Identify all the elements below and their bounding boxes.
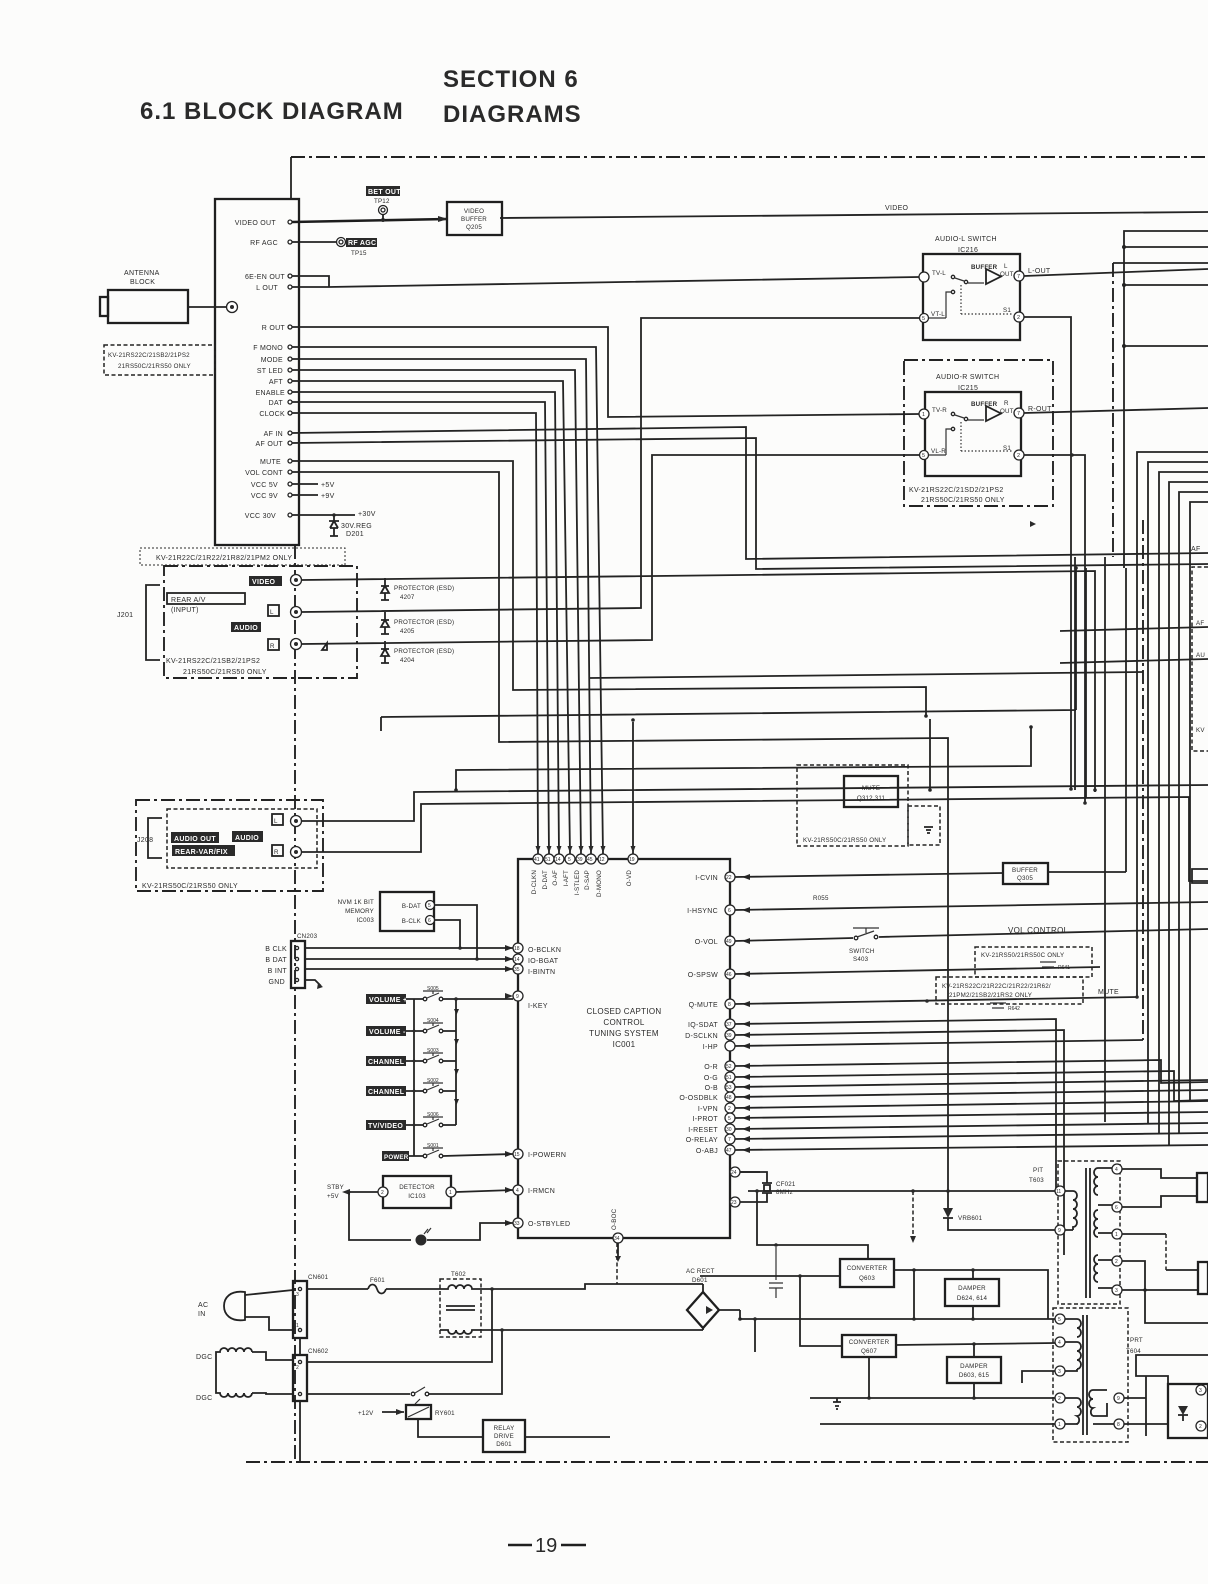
svg-text:IC003: IC003: [356, 917, 374, 924]
wire O-RELAY: [735, 1133, 1208, 1139]
switch contacts IC215: [951, 412, 954, 415]
svg-text:RF AGC: RF AGC: [250, 240, 278, 247]
connector CN602: [293, 1355, 307, 1401]
svg-text:TV-L: TV-L: [932, 270, 946, 277]
svg-text:KV-21RS22C/21SD2/21PS2: KV-21RS22C/21SD2/21PS2: [909, 487, 1004, 494]
key button CHANNEL+: [366, 1056, 406, 1066]
svg-text:KV-21RS22C/21R22C/21R22/21R62/: KV-21RS22C/21R22C/21R22/21R62/: [942, 983, 1051, 990]
IC001 left pin 33 O-STBYLED: [513, 1218, 523, 1228]
svg-text:PROTECTOR (ESD): PROTECTOR (ESD): [394, 585, 454, 592]
right edge line with label A2: [1060, 659, 1208, 663]
wire O-R: [735, 1060, 1208, 1083]
wire below CN602: [299, 1401, 301, 1462]
svg-text:DGC: DGC: [196, 1395, 212, 1402]
svg-text:BUFFER: BUFFER: [461, 216, 487, 223]
O-VD riser: [381, 568, 1076, 859]
IC001 right pin 51 O-G: [725, 1072, 735, 1082]
svg-text:ST LED: ST LED: [257, 368, 283, 375]
L jack label box: [268, 605, 279, 616]
wire CLOCK: [292, 413, 538, 854]
svg-text:2: 2: [1058, 1396, 1061, 1402]
svg-text:IO-BGAT: IO-BGAT: [528, 958, 559, 965]
wire ST LED: [292, 370, 581, 854]
svg-text:21PM2/21SB2/21RS2 ONLY: 21PM2/21SB2/21RS2 ONLY: [949, 992, 1032, 999]
output box P: [1168, 1384, 1208, 1438]
svg-text:15: 15: [514, 1152, 520, 1158]
svg-text:53: 53: [726, 1085, 732, 1091]
svg-text:D601: D601: [692, 1277, 708, 1284]
wire T604 pin 2 rail: [810, 1397, 1055, 1399]
svg-text:Q-MUTE: Q-MUTE: [689, 1002, 718, 1009]
IC001 right pin 48 O-OSDBLK: [725, 1092, 735, 1102]
right bundle wire b: [1113, 262, 1208, 264]
converter Q603 left wire: [700, 1275, 840, 1277]
J201 bracket: [146, 585, 160, 660]
svg-text:KV-21RS22C/21SB2/21PS2: KV-21RS22C/21SB2/21PS2: [108, 352, 190, 359]
svg-text:CONTROL: CONTROL: [603, 1018, 644, 1027]
svg-text:21RS50C/21RS50 ONLY: 21RS50C/21RS50 ONLY: [921, 497, 1005, 504]
svg-text:STBY: STBY: [327, 1184, 344, 1191]
svg-text:3: 3: [1058, 1369, 1061, 1375]
svg-text:O-VD: O-VD: [626, 870, 633, 887]
svg-text:I-KEY: I-KEY: [528, 1003, 548, 1010]
svg-text:11: 11: [1056, 1189, 1061, 1195]
svg-text:TP15: TP15: [351, 250, 367, 257]
svg-text:6: 6: [428, 918, 431, 924]
svg-text:RELAY: RELAY: [494, 1425, 515, 1432]
wire POWER to I-POWERN: [408, 1154, 513, 1156]
wire L-OUT to right: [1024, 269, 1208, 276]
R jack label box: [268, 639, 279, 650]
svg-text:B-CLK: B-CLK: [402, 918, 422, 925]
svg-text:45: 45: [587, 857, 593, 863]
svg-text:Q607: Q607: [861, 1348, 877, 1355]
IC001 right pin 22 I-CVIN: [725, 872, 735, 882]
right bundle corner 2: [1148, 462, 1208, 1124]
svg-text:BUFFER: BUFFER: [971, 401, 998, 408]
svg-text:REAR-VAR/FIX: REAR-VAR/FIX: [175, 849, 228, 856]
svg-text:PROTECTOR (ESD): PROTECTOR (ESD): [394, 619, 454, 626]
svg-text:4: 4: [1115, 1167, 1118, 1173]
main supply rail: [740, 1310, 1055, 1319]
svg-text:8MHz: 8MHz: [776, 1189, 793, 1196]
svg-text:R055: R055: [813, 895, 829, 902]
antenna connector: [227, 302, 238, 313]
svg-text:3: 3: [1115, 1288, 1118, 1294]
IC001 right pin 6 I-HSYNC: [725, 905, 735, 915]
key button VOLUME-: [366, 1026, 406, 1036]
svg-text:1: 1: [296, 1323, 299, 1329]
svg-text:2: 2: [728, 1106, 731, 1112]
svg-text:BET OUT: BET OUT: [368, 189, 401, 196]
IC001 left pin 15 I-POWERN: [513, 1149, 523, 1159]
svg-text:R641: R641: [1058, 965, 1070, 971]
svg-text:CN602: CN602: [308, 1348, 329, 1355]
svg-text:VRB601: VRB601: [958, 1215, 983, 1222]
model note box KV-21RS22C: [104, 345, 215, 375]
svg-text:R OUT: R OUT: [262, 325, 286, 332]
svg-text:VOL CONTROL: VOL CONTROL: [1008, 926, 1069, 935]
page number: [508, 1544, 586, 1547]
vol control dashed box 2: [936, 977, 1083, 1004]
T603 pin 3: [1112, 1285, 1122, 1295]
wire AF IN: [292, 427, 1208, 559]
svg-text:O-R: O-R: [704, 1064, 718, 1071]
svg-text:BLOCK: BLOCK: [130, 279, 155, 286]
svg-text:L: L: [1004, 263, 1008, 270]
wire video J201: [302, 571, 1095, 792]
wire B INT to pin 35: [305, 968, 513, 970]
+9V stub: [292, 494, 318, 496]
svg-text:6: 6: [728, 908, 731, 914]
svg-text:(INPUT): (INPUT): [171, 607, 199, 614]
pin 7 R OUT: [1014, 408, 1024, 418]
antenna block: [108, 290, 188, 323]
svg-text:O-RELAY: O-RELAY: [686, 1137, 718, 1144]
svg-text:PROTECTOR (ESD): PROTECTOR (ESD): [394, 648, 454, 655]
right bundle corner 5: [1179, 492, 1208, 1133]
protector ESD 4204: [381, 641, 389, 663]
svg-text:PIT: PIT: [1033, 1167, 1043, 1174]
right vertical f: [1125, 568, 1127, 872]
crystal CF021: [740, 1172, 767, 1202]
svg-text:30: 30: [726, 1127, 732, 1133]
output box Q: [1198, 1262, 1208, 1294]
IC001 left pin 4 I-RMCN: [513, 1185, 523, 1195]
svg-text:D624, 614: D624, 614: [957, 1295, 988, 1302]
wire CN602 pin2: [307, 1289, 492, 1362]
svg-text:48: 48: [726, 1095, 732, 1101]
svg-text:D603, 615: D603, 615: [959, 1372, 990, 1379]
30V regulator D201: [329, 515, 339, 536]
svg-text:19: 19: [535, 1535, 557, 1557]
svg-text:52: 52: [726, 1064, 732, 1070]
svg-text:CONVERTER: CONVERTER: [849, 1339, 890, 1346]
svg-text:34: 34: [614, 1236, 620, 1242]
svg-text:L-OUT: L-OUT: [1028, 268, 1051, 275]
test point TP12: [366, 186, 400, 196]
svg-text:GND: GND: [269, 979, 285, 986]
svg-text:DRIVE: DRIVE: [494, 1433, 514, 1440]
svg-text:12: 12: [599, 857, 605, 863]
svg-text:KV-21RS22C/21SB2/21PS2: KV-21RS22C/21SB2/21PS2: [166, 658, 260, 665]
wire audio-L J201: [302, 318, 919, 612]
IC001 top pin 41 D-CLKN: [533, 854, 543, 864]
wire Q-MUTE: [735, 997, 1137, 1004]
svg-text:4204: 4204: [400, 657, 415, 664]
ground mark: [833, 1398, 841, 1409]
pin 1 TV-R: [919, 409, 929, 419]
IC001 right pin 23: [730, 1197, 740, 1207]
REAR-VAR/FIX label: [172, 845, 235, 856]
IC001 closed caption control tuning system box: [518, 859, 730, 1238]
svg-text:2: 2: [1115, 1259, 1118, 1265]
J208 bracket: [148, 818, 162, 858]
wire MODE: [292, 359, 591, 854]
svg-text:I-STLED: I-STLED: [574, 870, 581, 895]
svg-text:TUNING SYSTEM: TUNING SYSTEM: [589, 1029, 659, 1038]
svg-text:+9V: +9V: [321, 493, 335, 500]
svg-text:47: 47: [726, 1148, 732, 1154]
svg-text:L: L: [274, 818, 278, 825]
IC001 right pin 2 I-VPN: [725, 1103, 735, 1113]
wire LED to O-STBYLED: [427, 1223, 513, 1240]
wire detector to I-RMCN: [456, 1190, 513, 1192]
svg-text:VIDEO OUT: VIDEO OUT: [235, 220, 277, 227]
wire B CLK to pin 18: [305, 947, 513, 949]
IC001 right pin 52 O-R: [725, 1061, 735, 1071]
pin 5 VT-L: [920, 314, 929, 323]
svg-text:D-CLKN: D-CLKN: [531, 870, 538, 894]
key button CHANNEL-: [366, 1086, 406, 1096]
svg-text:AUDIO OUT: AUDIO OUT: [174, 836, 216, 843]
mute block Q312 Q311: [844, 776, 898, 807]
aux line A: [456, 726, 1031, 790]
svg-text:VIDEO: VIDEO: [252, 579, 276, 586]
wire I-PROT: [735, 1112, 1208, 1118]
svg-text:O-AF: O-AF: [552, 870, 559, 886]
svg-text:IC103: IC103: [408, 1193, 426, 1200]
wire ENABLE: [292, 392, 559, 854]
IC001 right pin 24: [730, 1167, 740, 1177]
svg-text:O-BCLKN: O-BCLKN: [528, 947, 561, 954]
svg-text:TV-R: TV-R: [932, 407, 947, 414]
rail to T603 pin 11: [748, 1190, 1055, 1192]
converter Q603 output wire: [894, 1270, 1048, 1319]
svg-text:41: 41: [534, 857, 540, 863]
AC wires to CN601: [245, 1290, 293, 1330]
svg-text:I-CVIN: I-CVIN: [695, 875, 718, 882]
converter Q607 output wire: [896, 1343, 1055, 1345]
svg-text:DETECTOR: DETECTOR: [399, 1184, 435, 1191]
svg-text:O-VOL: O-VOL: [695, 939, 718, 946]
key button VOLUME+: [366, 994, 406, 1004]
svg-text:1: 1: [1115, 1232, 1118, 1238]
wire L OUT to audio-L switch: [292, 277, 919, 287]
wire B-DAT: [435, 905, 477, 959]
IC001 bottom pin 34 O-BOC: [613, 1233, 623, 1243]
AC line lower to rectifier: [481, 1329, 703, 1331]
outer dash-dot border left: [294, 545, 296, 1462]
key matrix arrows: [454, 1009, 459, 1105]
audio-L jack J201: [291, 607, 302, 618]
wire F MONO: [292, 347, 603, 854]
filter capacitor near Q603: [769, 1247, 783, 1298]
IC001 left pin 9 I-KEY: [513, 991, 523, 1001]
svg-text:SWITCH: SWITCH: [849, 948, 875, 955]
IC001 top pin 12 D-MONO: [598, 854, 608, 864]
pin 5 VL-R: [920, 451, 929, 460]
svg-text:R: R: [274, 849, 279, 856]
dashed stub x913: [912, 1191, 914, 1236]
svg-text:30V.REG: 30V.REG: [341, 523, 372, 530]
REAR A/V INPUT label: [167, 593, 245, 604]
svg-text:AUDIO: AUDIO: [235, 835, 259, 842]
IC001 right pin 5 I-PROT: [725, 1113, 735, 1123]
wire audio-R J201: [302, 455, 919, 644]
IC001 right pin 47 O-ABJ: [725, 1145, 735, 1155]
connector CN601: [293, 1281, 307, 1338]
svg-text:AU: AU: [1196, 652, 1205, 659]
audio-R jack J208: [291, 847, 302, 858]
junction mark: [1030, 521, 1036, 527]
svg-text:CLOCK: CLOCK: [259, 411, 285, 418]
IC001 left pin 35 I-BINTN: [513, 964, 523, 974]
video jack J201: [291, 575, 302, 586]
switch S403: [854, 936, 858, 940]
svg-text:+12V: +12V: [358, 1410, 374, 1417]
svg-text:AFT: AFT: [269, 379, 284, 386]
svg-text:L OUT: L OUT: [256, 285, 278, 292]
svg-text:2: 2: [1017, 453, 1020, 459]
tuner block: [215, 199, 299, 545]
svg-text:CHANNEL +: CHANNEL +: [368, 1059, 411, 1066]
right bundle wire a: [1124, 231, 1208, 568]
svg-text:DIAGRAMS: DIAGRAMS: [443, 101, 582, 128]
svg-text:AUDIO-L SWITCH: AUDIO-L SWITCH: [935, 236, 997, 243]
svg-text:+30V: +30V: [358, 511, 376, 518]
svg-text:33: 33: [514, 1221, 520, 1227]
zener VRB601: [947, 1191, 949, 1208]
svg-text:9: 9: [1117, 1396, 1120, 1402]
svg-text:AF: AF: [1191, 546, 1201, 553]
svg-text:D-SCLKN: D-SCLKN: [685, 1033, 718, 1040]
detector IC103: [383, 1176, 451, 1208]
standby LED: [349, 1192, 411, 1240]
svg-text:14: 14: [555, 857, 561, 863]
svg-text:49: 49: [726, 939, 732, 945]
IC001 pin arrowheads: [742, 874, 750, 880]
svg-text:5: 5: [1058, 1317, 1061, 1323]
video buffer Q205: [447, 202, 502, 235]
svg-text:B DAT: B DAT: [265, 957, 287, 964]
svg-text:I-HP: I-HP: [703, 1044, 718, 1051]
svg-text:O-ABJ: O-ABJ: [696, 1148, 718, 1155]
dashed vertical stub: [616, 1243, 618, 1284]
IC001 top pin 5 I-AFT: [565, 854, 575, 864]
key matrix bus left: [413, 999, 415, 1156]
svg-text:VOLUME -: VOLUME -: [369, 1029, 406, 1036]
svg-text:37: 37: [726, 1022, 732, 1028]
svg-text:D-DAT: D-DAT: [542, 870, 549, 889]
svg-text:5: 5: [428, 903, 431, 909]
wire VIDEO OUT main video line: [292, 219, 447, 222]
svg-text:T602: T602: [451, 1271, 466, 1278]
svg-text:I-HSYNC: I-HSYNC: [687, 908, 718, 915]
right vertical d: [1085, 568, 1087, 798]
L jack label J208: [272, 814, 283, 825]
svg-text:D-SAP: D-SAP: [584, 870, 591, 890]
svg-text:1: 1: [1058, 1422, 1061, 1428]
svg-text:5: 5: [568, 857, 571, 863]
svg-text:CF021: CF021: [776, 1181, 796, 1188]
svg-text:19: 19: [629, 857, 635, 863]
svg-text:CHANNEL -: CHANNEL -: [368, 1089, 409, 1096]
damper D624,614: [945, 1279, 999, 1306]
mute circuit dashed box: [797, 765, 908, 846]
svg-text:S1: S1: [1003, 307, 1011, 314]
svg-text:R: R: [270, 643, 275, 650]
svg-text:IC001: IC001: [613, 1040, 636, 1049]
VIDEO jack label: [249, 576, 282, 586]
svg-text:CLOSED CAPTION: CLOSED CAPTION: [587, 1007, 662, 1016]
buffer Q305: [1003, 863, 1048, 884]
damper D603,615: [947, 1357, 1001, 1383]
svg-text:F601: F601: [370, 1277, 385, 1284]
svg-text:2: 2: [1017, 315, 1020, 321]
svg-text:O-G: O-G: [704, 1075, 718, 1082]
pin 1 TV-L: [919, 272, 929, 282]
+5V stub: [292, 483, 318, 485]
svg-text:CONVERTER: CONVERTER: [847, 1265, 888, 1272]
svg-text:BUFFER: BUFFER: [1012, 867, 1038, 874]
svg-text:TP12: TP12: [374, 198, 390, 205]
svg-text:AF OUT: AF OUT: [256, 441, 284, 448]
wire T604 pin 1: [820, 1423, 1055, 1425]
T603 pin 1: [1112, 1229, 1122, 1239]
key button POWER: [382, 1151, 409, 1161]
GND stub: [305, 980, 321, 986]
svg-text:51: 51: [545, 857, 551, 863]
IC001 top pin 19 O-VD: [628, 854, 638, 864]
relay drive D601: [483, 1420, 525, 1452]
svg-text:21RS50C/21RS50 ONLY: 21RS50C/21RS50 ONLY: [183, 669, 267, 676]
svg-text:I-PROT: I-PROT: [692, 1116, 718, 1123]
svg-text:Q603: Q603: [859, 1275, 875, 1282]
output box BA: [1197, 1173, 1208, 1202]
IC001 right pin 49 O-VOL: [725, 936, 735, 946]
audio-R switch IC215 box: [925, 392, 1021, 476]
wire I-VPN: [735, 1101, 1208, 1108]
wire O-OSDBLK: [735, 1090, 1208, 1097]
svg-text:D-MONO: D-MONO: [596, 870, 603, 897]
wire O-SPSW: [735, 967, 1100, 974]
svg-text:Q305: Q305: [1017, 875, 1033, 882]
svg-text:CN601: CN601: [308, 1274, 329, 1281]
svg-text:MEMORY: MEMORY: [345, 908, 374, 915]
svg-text:IN: IN: [198, 1311, 206, 1318]
T604 pin 9: [1114, 1393, 1124, 1403]
svg-text:14: 14: [514, 957, 520, 963]
svg-text:TV/VIDEO: TV/VIDEO: [368, 1123, 403, 1130]
svg-text:24: 24: [731, 1170, 737, 1176]
IC001 top pin 45 D-SAP: [586, 854, 596, 864]
svg-text:VOL CONT: VOL CONT: [245, 470, 283, 477]
svg-text:2: 2: [1199, 1424, 1202, 1430]
audio-R jack J201: [291, 639, 302, 650]
AC plug: [224, 1292, 245, 1321]
svg-text:51: 51: [726, 1075, 732, 1081]
svg-text:RF AGC: RF AGC: [348, 240, 376, 247]
wire T604 pin 3: [1022, 1371, 1055, 1383]
wire D-SCLKN: [735, 1030, 1064, 1255]
svg-text:Q205: Q205: [466, 224, 482, 231]
svg-text:I-BINTN: I-BINTN: [528, 969, 555, 976]
svg-text:T603: T603: [1029, 1177, 1044, 1184]
B+ rail stub below y1319: [754, 1319, 756, 1352]
wire S1 L: [1024, 317, 1071, 790]
svg-text:OUT: OUT: [1000, 408, 1014, 415]
audio-R switch dashed model box: [904, 360, 1053, 506]
wire I-HP: [735, 1040, 1143, 1046]
svg-text:CN203: CN203: [297, 933, 318, 940]
svg-text:9: 9: [1058, 1228, 1061, 1234]
pin 7 L OUT: [1014, 271, 1024, 281]
wire audio-R J208: [302, 797, 1208, 881]
svg-text:3: 3: [296, 1292, 299, 1298]
right edge line with label A1: [1060, 627, 1208, 631]
svg-text:J208: J208: [137, 837, 153, 844]
